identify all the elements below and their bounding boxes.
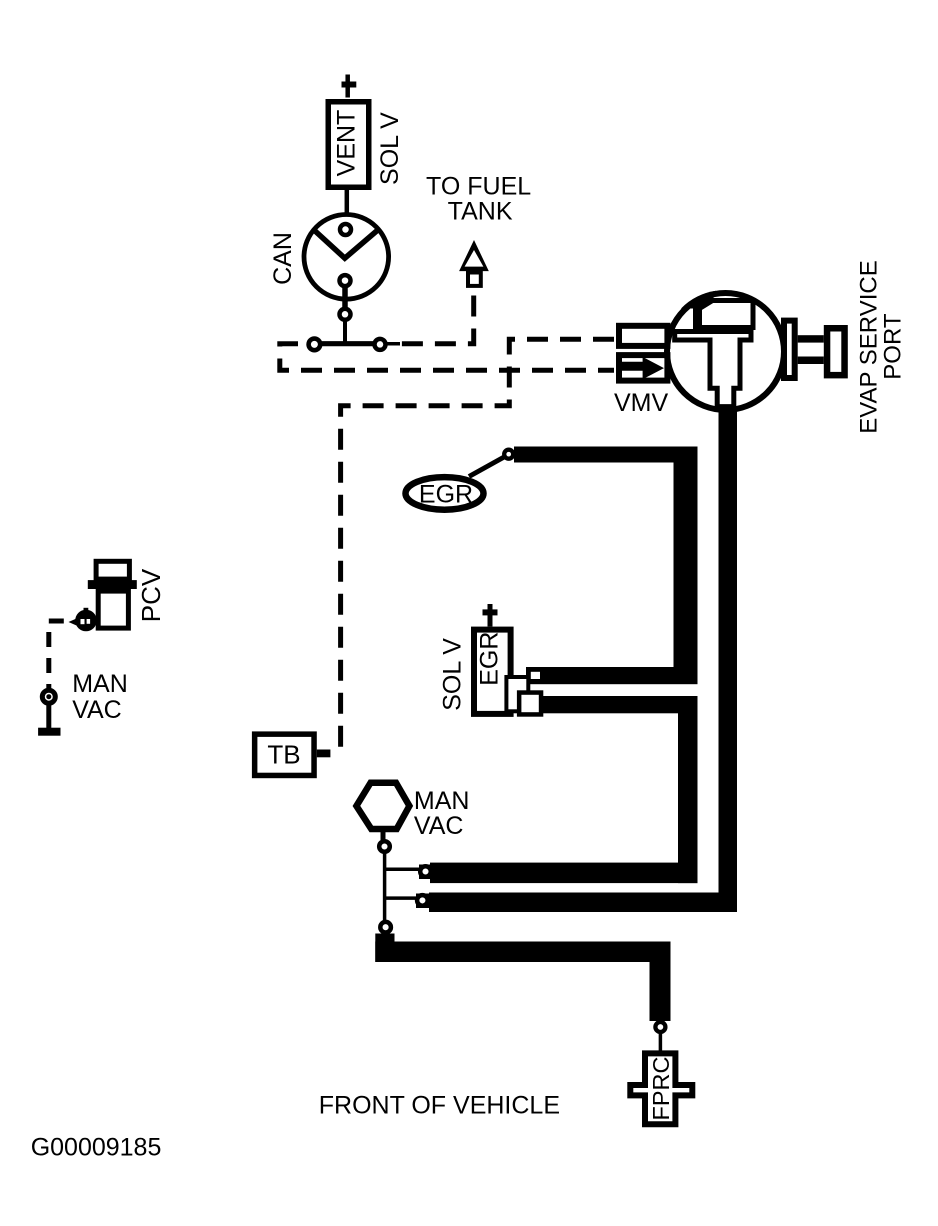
tee bar xyxy=(313,341,382,346)
wire: to FPRC xyxy=(659,1031,663,1052)
evap service port connector bars xyxy=(798,335,824,342)
svg-text:G00009185: G00009185 xyxy=(31,1133,162,1161)
svg-text:VMV: VMV xyxy=(614,389,669,417)
VMV top white rect with bevel xyxy=(700,301,754,328)
hose: manifold junction to FPRC xyxy=(375,934,394,963)
wire dashed: canister tee left branch down to VMV lower port xyxy=(280,344,614,371)
fuel tank arrow xyxy=(459,240,489,271)
left MAN VAC fitting xyxy=(42,690,55,703)
FPRC fitting circle xyxy=(655,1022,665,1032)
wire: branch 2 xyxy=(385,896,416,900)
svg-text:VAC: VAC xyxy=(72,696,122,724)
VMV right port rect xyxy=(784,321,795,378)
FPRC cross body xyxy=(630,1053,692,1124)
VMV T passage xyxy=(675,332,751,407)
PCV body xyxy=(96,561,129,579)
wire: junction vertical xyxy=(383,853,387,921)
PCV nipple xyxy=(75,610,97,632)
wire dashed: VMV upper port to TB xyxy=(341,339,614,748)
canister CAN circle xyxy=(304,214,389,299)
svg-text:TB: TB xyxy=(267,740,300,770)
evap service port cap xyxy=(827,328,845,375)
hose: junction upper horizontal (to EGR SOL V lower hose drop) xyxy=(430,863,698,884)
fitting circle below canister xyxy=(340,309,351,320)
canister top port xyxy=(340,224,351,235)
svg-text:PORT: PORT xyxy=(880,313,907,380)
junction circle 1 xyxy=(420,866,431,877)
svg-text:EGR: EGR xyxy=(419,481,473,509)
hose: VMV down to junction xyxy=(719,405,738,912)
canister bottom port xyxy=(340,275,351,286)
MAN VAC hexagon xyxy=(356,783,409,829)
wire dashed: fuel tank arrow to canister tee right branch xyxy=(400,296,474,344)
wire: vent solenoid to canister xyxy=(345,189,350,223)
VMV circle stroke xyxy=(667,293,784,410)
wire dashed: PCV nipple to left MAN VAC fitting xyxy=(49,621,64,688)
hose: junction lower horizontal (to VMV drop) xyxy=(429,893,737,913)
svg-text:MAN: MAN xyxy=(72,670,128,698)
hose tab j1 xyxy=(419,865,434,880)
TB box xyxy=(255,734,314,775)
svg-text:TO FUEL: TO FUEL xyxy=(426,173,531,201)
svg-text:EVAP SERVICE: EVAP SERVICE xyxy=(856,260,883,433)
hose: EGR oval to EGR SOL V upper junction (right then down) xyxy=(514,455,686,685)
tee right circle xyxy=(375,339,386,350)
wire: branch 1 xyxy=(385,868,419,872)
VMV left lower port rect xyxy=(619,355,667,381)
svg-text:MAN: MAN xyxy=(414,787,470,815)
hexagon fitting circle xyxy=(379,841,390,852)
wire: tee right stub xyxy=(382,342,400,346)
EGR fitting circle xyxy=(504,450,513,459)
tee left circle xyxy=(309,339,321,351)
VMV black wedge top-left xyxy=(681,291,716,309)
canister V notch xyxy=(314,230,378,258)
vent solenoid box xyxy=(328,102,369,188)
hose notch xyxy=(531,672,540,679)
svg-text:TANK: TANK xyxy=(448,197,513,225)
svg-text:FRONT OF VEHICLE: FRONT OF VEHICLE xyxy=(319,1092,560,1120)
svg-text:SOL V: SOL V xyxy=(439,638,467,711)
hexagon stub xyxy=(381,829,386,840)
VMV circle fill xyxy=(667,293,784,410)
hose: EGR SOL V upper port hose xyxy=(526,667,698,684)
svg-text:EGR: EGR xyxy=(476,632,504,686)
EGR oval xyxy=(406,477,484,510)
svg-text:FPRC: FPRC xyxy=(648,1056,674,1120)
wire: fitting to tee xyxy=(343,319,347,343)
EGR solenoid plus symbol xyxy=(483,604,498,627)
svg-text:SOL V: SOL V xyxy=(376,112,404,185)
wire: EGR oval to fitting xyxy=(469,457,505,477)
EGR solenoid port B xyxy=(519,693,541,715)
vent solenoid plus symbol xyxy=(342,75,357,98)
svg-text:CAN: CAN xyxy=(269,232,297,285)
svg-text:VENT: VENT xyxy=(333,110,361,177)
EGR solenoid box xyxy=(474,630,511,714)
junction circle 3 xyxy=(380,922,391,933)
hose: EGR SOL V lower port hose going right then down to junction xyxy=(536,696,698,713)
EGR solenoid port A xyxy=(506,677,528,711)
svg-text:VAC: VAC xyxy=(414,812,464,840)
hose tab j2 xyxy=(416,894,431,909)
VMV left upper port rect xyxy=(619,326,667,346)
svg-text:PCV: PCV xyxy=(136,568,166,622)
VMV arrow xyxy=(621,357,664,379)
junction circle 2 xyxy=(417,895,428,906)
wire: canister bottom port to fitting xyxy=(342,284,348,312)
